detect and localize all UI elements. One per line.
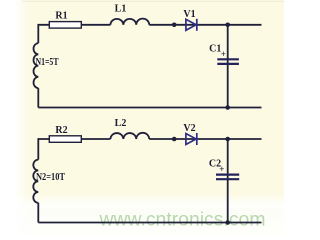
resistor R2 [49,136,81,143]
wire: top rail left segment circuit 2 [38,139,110,160]
wire: left rail lower segment circuit 2 [37,203,39,223]
svg-text:R1: R1 [55,11,67,22]
wire: top rail from L1 to right end [149,24,261,26]
inductor L2 [110,133,149,139]
svg-text:N2=10T: N2=10T [36,172,65,183]
svg-text:N1=5T: N1=5T [36,57,59,68]
capacitor C2 [216,175,239,180]
wire: C2 branch vertical [227,139,229,223]
svg-text:R2: R2 [55,125,67,136]
wire: bottom rail circuit 1 [38,107,261,109]
wire: bottom rail circuit 2 [38,222,261,224]
node: junction before V2 [172,137,177,142]
svg-text:C1: C1 [209,44,221,55]
diode V2 [186,133,197,145]
faint top scan edge [22,0,284,2]
node: junction top of C2 branch [225,137,230,142]
node: junction bottom of C1 branch [225,105,230,110]
winding N2 coil [33,160,38,203]
node: junction bottom of C2 branch [225,220,230,225]
svg-text:L2: L2 [115,118,127,129]
resistor R1 [49,22,81,29]
diode V1 [186,19,197,31]
wire: top rail left segment (corner to L1) [38,25,110,43]
svg-text:V2: V2 [183,123,195,134]
svg-text:+: + [221,49,226,59]
wire: C1 branch vertical [227,25,229,108]
svg-text:www.cntronics.com: www.cntronics.com [98,210,265,231]
capacitor C1 [217,59,239,64]
node: junction top of C1 branch [225,23,230,28]
svg-text:L1: L1 [115,4,127,15]
wire: top rail from L2 to right end [149,138,261,140]
svg-text:+: + [219,164,224,174]
svg-text:V1: V1 [183,9,195,20]
winding N1 coil [34,43,39,88]
inductor L1 [110,19,149,25]
wire: left rail lower segment [37,88,39,107]
node: junction before V1 [172,23,177,28]
